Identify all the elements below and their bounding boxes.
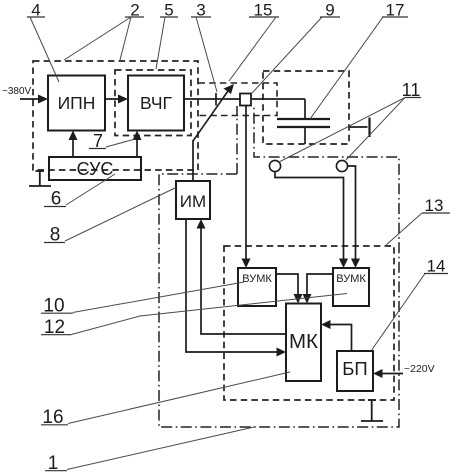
label 2 bbox=[64, 1, 144, 61]
wire: circle 11a down/right to VUMK2 bbox=[275, 172, 348, 269]
block IM (ИМ) bbox=[176, 181, 210, 219]
svg-text:14: 14 bbox=[427, 257, 446, 276]
wire: lever link down to IM bbox=[192, 140, 194, 181]
wire: ~220V into BP bbox=[373, 369, 403, 378]
svg-text:БП: БП bbox=[342, 358, 367, 379]
bushing insulator circle 11b bbox=[336, 160, 347, 171]
dashed box 15 (around switch contacts) bbox=[199, 83, 278, 116]
wire: MK left out, up into IM bbox=[197, 219, 287, 334]
wire: circle 11b right/down to VUMK2 bbox=[348, 166, 361, 268]
wire: SUS up to IPN bbox=[69, 131, 78, 158]
label 16 bbox=[41, 372, 290, 428]
svg-text:МК: МК bbox=[289, 330, 318, 353]
block SUS (СУС) bbox=[49, 157, 141, 180]
bushing square 9 on the line bbox=[240, 94, 251, 106]
wire: VCHG output main HV line bbox=[184, 98, 305, 100]
ground (rotated, right of box 17) bbox=[349, 118, 370, 138]
label 14 bbox=[371, 257, 448, 352]
label 10 bbox=[41, 282, 244, 317]
label 5 bbox=[156, 1, 178, 70]
dashed box 5 (around VCHG) bbox=[115, 70, 191, 136]
label 8 bbox=[44, 188, 176, 246]
switch lever with arrow (15) bbox=[193, 84, 234, 141]
ground (left, at box 2) bbox=[29, 171, 51, 186]
ground (below BP) bbox=[361, 400, 383, 421]
label 12 bbox=[41, 294, 347, 339]
label 17 bbox=[310, 1, 408, 120]
label 1 bbox=[45, 427, 254, 474]
label 11 bbox=[280, 80, 421, 162]
switch fixed contact 3 (tick) bbox=[215, 93, 217, 106]
block VCHG (ВЧГ) bbox=[128, 76, 184, 131]
label 6 bbox=[44, 174, 115, 210]
wire: IM down, right into MK bbox=[186, 219, 286, 357]
wire: ~380V input arrow into IPN bbox=[20, 95, 48, 104]
wire: VUMK1 to MK top bbox=[276, 274, 303, 304]
svg-text:ВУМК: ВУМК bbox=[336, 273, 366, 285]
bushing insulator circle 11a bbox=[269, 160, 280, 171]
block IPN (ИПН) bbox=[48, 76, 105, 131]
capacitor 17 bbox=[277, 99, 330, 144]
dashed box 17 (around capacitor) bbox=[263, 71, 349, 144]
svg-text:ВЧГ: ВЧГ bbox=[140, 93, 173, 113]
svg-text:СУС: СУС bbox=[77, 159, 114, 179]
block VUMK2 (ВУМК) bbox=[333, 268, 369, 306]
block MK (МК) bbox=[286, 304, 321, 382]
label 13 bbox=[385, 196, 450, 246]
label 4 bbox=[27, 1, 59, 83]
dashed box 13 (around VUMK/MK/BP) bbox=[224, 246, 394, 400]
svg-text:~380V: ~380V bbox=[2, 86, 32, 97]
wire: VUMK2 to MK top bbox=[303, 274, 334, 304]
wire: SUS up to VCHG bbox=[133, 131, 142, 158]
wire: BP up/left into MK bbox=[321, 320, 352, 351]
label 7 bbox=[89, 131, 135, 151]
block BP (БП) bbox=[337, 351, 373, 391]
label 3 bbox=[191, 1, 217, 93]
label 9 bbox=[252, 1, 340, 94]
svg-text:ИМ: ИМ bbox=[180, 192, 206, 211]
label 15 bbox=[229, 1, 279, 82]
block VUMK1 (ВУМК) bbox=[238, 268, 276, 306]
wire: square 9 down to VUMK1 bbox=[242, 106, 251, 269]
svg-text:~220V: ~220V bbox=[404, 363, 435, 375]
svg-text:ИПН: ИПН bbox=[58, 93, 96, 113]
svg-text:ВУМК: ВУМК bbox=[242, 273, 272, 285]
svg-text:13: 13 bbox=[425, 196, 444, 215]
dashed box 2 (enclosure of IPN/VCHG/SUS) bbox=[33, 61, 198, 170]
wire: IPN output to VCHG bbox=[105, 95, 128, 104]
dash-dot enclosure box 1 (stepped boundary) bbox=[159, 106, 399, 427]
